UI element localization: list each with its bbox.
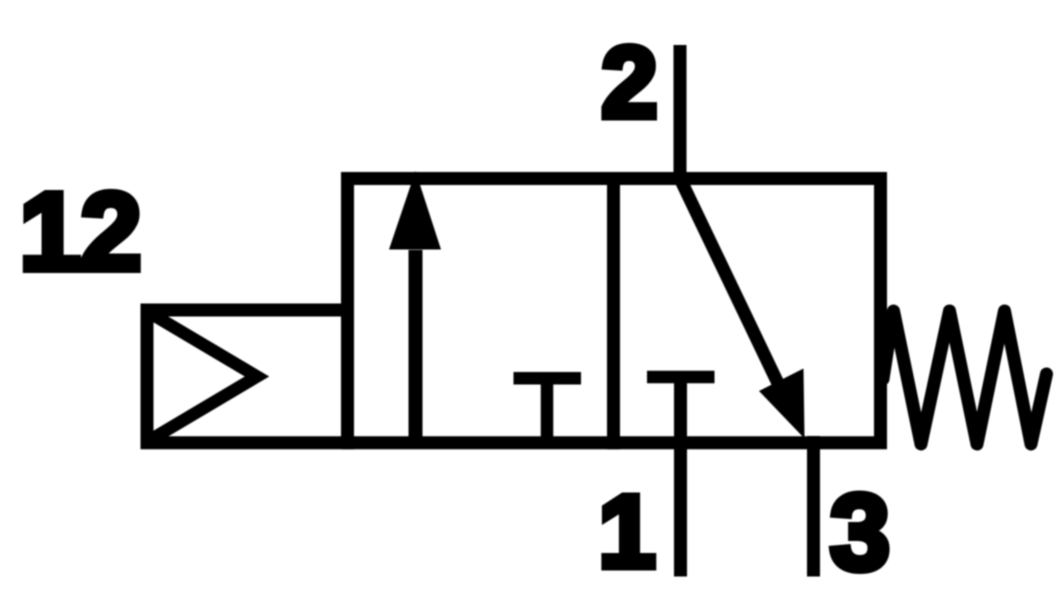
svg-text:12: 12 [19,171,141,294]
blocked port T bar left [514,372,582,385]
flow arrow shaft up [409,250,423,449]
flow arrow head up [389,171,441,250]
flow arrow head diagonal [759,369,805,439]
port 1 line [674,377,687,577]
blocked port T bar right [647,371,715,384]
svg-text:2: 2 [601,27,657,139]
pilot triangle [150,313,257,440]
blocked port T stem left [541,378,554,449]
valve body left square [348,179,614,443]
flow diagonal shaft [680,179,785,399]
svg-text:3: 3 [830,472,890,593]
valve body right square [614,179,881,443]
spring return [883,311,1047,444]
port 2 line [674,45,687,185]
pilot actuator box [147,310,348,443]
svg-text:1: 1 [598,474,655,589]
port 3 line [807,436,820,577]
